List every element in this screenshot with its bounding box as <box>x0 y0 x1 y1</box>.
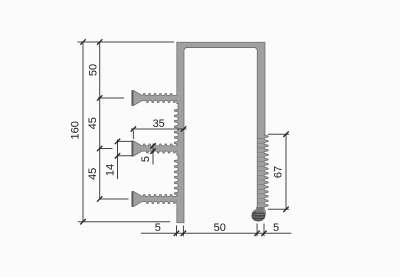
svg-text:160: 160 <box>70 121 82 139</box>
svg-text:5: 5 <box>273 222 279 234</box>
svg-text:50: 50 <box>214 222 226 234</box>
svg-text:67: 67 <box>272 166 284 178</box>
svg-text:5: 5 <box>140 156 152 162</box>
svg-text:45: 45 <box>87 117 99 129</box>
svg-text:50: 50 <box>88 64 100 76</box>
svg-text:45: 45 <box>87 168 99 180</box>
svg-text:14: 14 <box>104 164 116 176</box>
svg-text:35: 35 <box>153 118 165 130</box>
svg-text:5: 5 <box>155 222 161 234</box>
